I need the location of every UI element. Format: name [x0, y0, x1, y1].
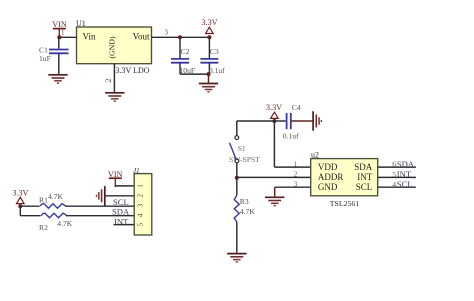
- ground under C2/C3: [199, 82, 218, 92]
- resistor R3: [234, 178, 255, 253]
- wire C2 bottom to C3 bottom: [180, 73, 209, 75]
- power symbol 3.3V (top): [201, 18, 217, 34]
- svg-text:4.7K: 4.7K: [240, 207, 255, 216]
- svg-text:Vin: Vin: [83, 31, 96, 41]
- svg-text:SDA: SDA: [112, 207, 130, 217]
- wire 3.3V down to R2 row: [19, 206, 21, 216]
- wire 3.3V to R1: [20, 205, 39, 207]
- capacitor C2: [171, 37, 195, 75]
- wire U2 INT (pin 5): [378, 176, 416, 178]
- svg-text:2: 2: [135, 194, 144, 198]
- svg-text:3: 3: [165, 29, 169, 37]
- svg-text:C2: C2: [181, 47, 190, 56]
- svg-text:S1: S1: [238, 144, 246, 153]
- svg-text:INT: INT: [357, 172, 372, 182]
- svg-text:5: 5: [392, 170, 396, 179]
- wire J1 pin 5 (INT): [114, 224, 135, 226]
- wire switch bottom to junction: [236, 163, 238, 178]
- junction C3 / 3.3V: [207, 35, 211, 39]
- junction 3.3V / C4 / VDD: [272, 119, 276, 123]
- svg-text:SW-SPST: SW-SPST: [229, 155, 260, 164]
- svg-text:3: 3: [294, 180, 298, 188]
- ground under U2 GND pin: [265, 196, 284, 206]
- svg-text:3: 3: [135, 203, 144, 207]
- svg-text:VIN: VIN: [52, 20, 67, 29]
- svg-text:SDA: SDA: [397, 159, 415, 169]
- junction under C3: [207, 72, 211, 76]
- svg-text:3.3V: 3.3V: [201, 18, 217, 27]
- wire R1 to J1 pin 3 (SCL): [65, 205, 134, 207]
- wire R2 to J1 pin 4 (SDA): [66, 215, 134, 217]
- wire U2 SCL (pin 4): [378, 186, 416, 188]
- wire to R2: [20, 215, 40, 217]
- connector J1: [133, 167, 152, 235]
- svg-text:SDA: SDA: [354, 162, 373, 172]
- svg-text:3.3V: 3.3V: [266, 103, 282, 112]
- svg-text:U1: U1: [76, 19, 86, 28]
- svg-text:INT: INT: [397, 169, 412, 179]
- svg-text:0.1uf: 0.1uf: [209, 66, 225, 75]
- svg-text:VDD: VDD: [318, 162, 338, 172]
- svg-text:2: 2: [294, 170, 298, 178]
- ground under U1 pin 2: [105, 92, 124, 102]
- svg-text:4: 4: [135, 213, 144, 217]
- svg-text:SCL: SCL: [356, 182, 373, 192]
- capacitor C4: [274, 103, 312, 141]
- capacitor C3: [200, 37, 225, 75]
- wire VIN to J1 pin 1: [115, 185, 134, 188]
- wire GND down: [274, 187, 276, 196]
- wire junction to ground: [208, 74, 210, 82]
- svg-text:J1: J1: [133, 167, 140, 175]
- ground (rotated left) at J1 pin 2: [97, 186, 107, 205]
- junction 3.3V / R1 / R2: [18, 204, 22, 208]
- svg-text:INT: INT: [114, 216, 129, 226]
- junction VIN/C1: [57, 35, 61, 39]
- IC U2 TSL2561: [311, 151, 378, 208]
- svg-text:TSL2561: TSL2561: [330, 199, 360, 208]
- power symbol 3.3V (U2): [266, 103, 282, 118]
- svg-text:1uF: 1uF: [39, 54, 51, 63]
- wire junction to switch top: [237, 120, 275, 122]
- svg-text:ADDR: ADDR: [318, 172, 344, 182]
- wire VIN junction to U1 Vin: [59, 36, 77, 38]
- switch S1 SW-SPST: [229, 136, 260, 164]
- wire U2 SDA (pin 6): [378, 166, 416, 168]
- svg-text:3.3V LDO: 3.3V LDO: [116, 66, 150, 75]
- resistor R1: [39, 192, 66, 208]
- wire U1 Vout to 3.3V rail: [152, 36, 210, 38]
- svg-text:C4: C4: [292, 103, 301, 112]
- wire down to switch: [236, 121, 238, 136]
- ground (rotated right) after C4: [312, 111, 322, 130]
- svg-text:(GND): (GND): [107, 36, 116, 58]
- ground under R3: [227, 252, 246, 262]
- svg-text:Vout: Vout: [133, 31, 150, 41]
- wire U2 GND (pin 3): [275, 186, 311, 188]
- capacitor C1: [39, 37, 69, 74]
- svg-text:5: 5: [135, 223, 144, 227]
- svg-text:4.7K: 4.7K: [48, 192, 63, 201]
- svg-text:R1: R1: [39, 195, 48, 204]
- wire to U2 VDD (pin 1): [274, 166, 310, 168]
- svg-text:0.1uf: 0.1uf: [283, 132, 299, 141]
- wire J1 pin 2 to ground: [106, 195, 134, 197]
- junction C2: [178, 35, 182, 39]
- power symbol VIN (J1): [108, 170, 123, 187]
- pin 2 of U1 (GND): [103, 64, 114, 92]
- svg-text:C1: C1: [39, 45, 48, 54]
- wire 3.3V down to VDD: [273, 121, 275, 167]
- svg-text:4: 4: [392, 180, 396, 189]
- resistor R2: [39, 213, 73, 232]
- svg-text:1: 1: [294, 160, 298, 168]
- op-amp-style part U1 box: [76, 19, 152, 75]
- svg-text:2: 2: [103, 78, 113, 82]
- svg-text:SCL: SCL: [397, 179, 413, 189]
- svg-text:SCL: SCL: [113, 197, 129, 207]
- svg-text:GND: GND: [318, 182, 338, 192]
- svg-text:u2: u2: [311, 151, 319, 160]
- svg-text:6: 6: [392, 160, 396, 169]
- svg-text:4.7K: 4.7K: [57, 219, 72, 228]
- junction switch / R3 / ADDR: [235, 176, 239, 180]
- power symbol 3.3V (bottom-left): [12, 188, 28, 203]
- svg-text:C3: C3: [210, 47, 219, 56]
- svg-text:1: 1: [135, 184, 144, 188]
- svg-text:R3: R3: [240, 197, 249, 206]
- svg-text:R2: R2: [39, 223, 48, 232]
- power symbol VIN (top-left): [52, 20, 67, 37]
- svg-text:3.3V: 3.3V: [12, 188, 28, 197]
- wire junction to U2 ADDR (pin 2): [237, 176, 311, 178]
- svg-text:1: 1: [61, 29, 65, 37]
- ground under C1: [48, 74, 67, 84]
